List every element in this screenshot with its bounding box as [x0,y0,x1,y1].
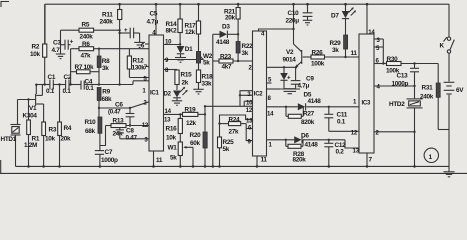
IC1 pin 8 [164,67,178,74]
capacitor C8 0.47 [116,128,149,142]
svg-text:1: 1 [353,99,357,106]
svg-text:D7: D7 [331,13,339,20]
svg-text:7: 7 [144,64,148,71]
left edge scan artifact [0,160,2,173]
IC1 pin 9 wire to W2 wiper [164,56,204,65]
svg-text:3: 3 [144,137,148,144]
resistor R22 3k [236,42,253,63]
svg-text:7: 7 [369,157,373,164]
wire top supply rail [45,3,449,5]
svg-text:1: 1 [269,142,273,149]
wire IC2 pin8 row to IC3 pin1 [267,106,360,108]
svg-text:12: 12 [246,107,253,114]
wire R6 node to IC1 [98,48,149,50]
capacitor C7 1000p [95,149,118,168]
svg-text:0.1: 0.1 [63,88,72,95]
svg-text:4: 4 [377,84,381,91]
svg-text:240k: 240k [420,94,434,101]
wire R5/C3 left vertical to ground [60,30,62,53]
capacitor C13 1000p [392,64,420,99]
diode D1 to ground [175,46,193,62]
svg-text:240k: 240k [80,34,94,41]
svg-text:R8: R8 [102,58,110,65]
wire ground bus [18,165,450,167]
svg-text:HTD1: HTD1 [1,136,17,143]
svg-text:0.1: 0.1 [46,88,55,95]
op-amp IC3 box [359,34,374,153]
svg-text:R7 10k: R7 10k [75,64,95,71]
capacitor C9 4.7u [287,67,314,89]
wire drain node row [35,83,50,94]
IC1 pin 5 [143,76,147,83]
svg-text:220μ: 220μ [286,18,300,25]
svg-text:D3: D3 [222,24,230,31]
junction dots on ground bus left [27,165,30,168]
resistor R19 12k [179,107,206,128]
wire gate node [18,98,36,100]
svg-text:12: 12 [142,122,149,129]
resistor R8 3k [97,49,110,85]
ground symbol under R18 [193,89,203,94]
svg-text:5k: 5k [170,155,177,162]
svg-text:K: K [440,43,445,50]
resistor R5 240k [61,22,120,41]
IC1 pin 12 [142,122,149,129]
svg-text:C8: C8 [126,128,134,135]
svg-text:60k: 60k [190,140,201,147]
svg-text:D1: D1 [185,46,193,53]
capacitor C2 0.1 [63,74,72,95]
resistor R13 24k [106,118,150,138]
svg-text:5k: 5k [203,60,210,67]
battery GB 6V [444,53,465,166]
svg-text:0.47: 0.47 [126,135,138,142]
svg-text:820k: 820k [293,157,307,164]
svg-text:10k: 10k [45,136,56,143]
svg-text:1000p: 1000p [101,157,118,164]
svg-text:C6: C6 [115,102,123,109]
svg-text:IC3: IC3 [362,100,371,107]
svg-text:14: 14 [368,29,375,36]
svg-text:+: + [287,75,291,82]
IC1 pin 7 [144,64,149,71]
svg-text:3: 3 [377,37,381,44]
svg-text:11: 11 [351,50,358,57]
svg-text:9014: 9014 [283,57,297,64]
diode D4 to ground [280,67,288,88]
svg-text:C3: C3 [53,40,61,47]
resistor R31 240k [420,64,449,130]
svg-text:5k: 5k [223,146,230,153]
top-left scan artifact [1,2,9,8]
svg-text:C9: C9 [306,76,314,83]
bottom border line [0,172,467,174]
resistor R18 33k [196,70,213,89]
switch K [440,4,455,53]
svg-text:4148: 4148 [305,142,319,149]
IC3 pin 2 wire [374,130,416,137]
capacitor C12 0.2 [324,140,346,168]
ground symbol under D4/C9 [267,89,301,94]
svg-text:R30: R30 [387,56,399,63]
svg-text:W1: W1 [168,145,178,152]
resistor R2 10k [30,4,47,84]
svg-text:R5: R5 [82,22,90,29]
svg-text:11: 11 [261,157,268,164]
svg-text:R11: R11 [102,12,113,19]
wire pin13 routing to R24/R25 [218,115,252,137]
svg-text:0.2: 0.2 [336,149,345,156]
svg-text:R29: R29 [330,40,342,47]
svg-text:R31: R31 [422,85,434,92]
svg-text:4.7μ: 4.7μ [147,19,159,26]
svg-text:20k: 20k [225,15,236,22]
svg-text:100k: 100k [311,61,325,68]
IC1 pin 11 bottom [152,151,163,168]
LED D2 to ground [164,87,188,106]
svg-text:47k: 47k [81,53,92,60]
svg-text:27k: 27k [229,129,240,136]
svg-text:820k: 820k [301,119,315,126]
svg-text:20k: 20k [61,136,72,143]
svg-text:10: 10 [246,100,253,107]
svg-text:R25: R25 [223,139,235,146]
wire left vertical from rail to R2 [44,4,46,44]
resistor R4 20k [58,85,72,167]
transistor V2 9014 [283,44,312,68]
svg-text:4k7: 4k7 [222,64,233,71]
wire C4 to R8/R9 node then to IC1 pin1 [84,81,149,86]
resistor R1 1.2M [24,100,40,167]
capacitor C3 4.7 electrolytic [52,39,74,54]
IC3 pin 4 wire [374,84,416,91]
resistor R25 5k [218,137,235,168]
svg-text:68k: 68k [85,128,96,135]
transistor V1 K304 FET [23,85,44,123]
wire R20 node to IC2 pin10/12 [205,101,253,106]
svg-text:2k: 2k [182,80,189,87]
resistor R20 60k [190,105,208,168]
svg-text:D2: D2 [164,91,172,98]
svg-text:13: 13 [246,118,253,125]
wire emitter node row [267,66,298,68]
svg-text:C13: C13 [397,73,409,80]
svg-text:R4: R4 [64,125,72,132]
svg-text:5: 5 [143,76,147,83]
resistor R15 2k [175,70,192,90]
resistor R24 27k [220,116,247,135]
svg-text:R18: R18 [202,74,214,81]
svg-text:R23: R23 [220,54,232,61]
svg-text:4148: 4148 [216,39,230,46]
svg-text:K304: K304 [23,113,38,120]
IC1 pin 4 top [152,3,157,37]
wire R13 left leg down to C7 node [100,126,106,146]
svg-text:10k: 10k [166,135,177,142]
svg-text:2: 2 [376,130,380,137]
wire D3 anode vertical to bus [212,34,215,167]
resistor R17 12k [185,3,201,52]
wire C2 to C4 node with R6/R7 vertical [69,49,81,86]
wire C11 bottom to IC3 pin12 [329,130,359,132]
svg-text:R10: R10 [85,119,97,126]
resistor R26 100k [311,50,359,68]
svg-text:68k: 68k [102,96,113,103]
diode D5 4148 [298,92,321,111]
svg-text:R12: R12 [133,58,145,65]
svg-text:4148: 4148 [308,98,322,105]
svg-text:C11: C11 [337,112,348,119]
resistor R29 3k [330,35,348,58]
wire IC2 pin1 row to IC3 pin13 [267,139,360,148]
capacitor C10 220u [286,3,313,25]
svg-text:R6: R6 [82,41,90,48]
svg-text:C10: C10 [288,10,300,17]
svg-text:3k: 3k [242,50,249,57]
svg-text:1: 1 [429,154,433,161]
svg-text:33k: 33k [202,81,213,88]
svg-text:14: 14 [165,108,172,115]
svg-text:0.1: 0.1 [86,85,95,92]
capacitor C6 0.47 [108,102,134,127]
svg-text:R20: R20 [190,132,202,139]
LED D7 [331,3,356,35]
wire C1-C2 junction with R4 tap [53,83,65,85]
diode D3 4148 [213,24,240,47]
IC1 pin 10 [164,39,181,46]
svg-text:IC1: IC1 [150,90,159,97]
op-amp IC2 box [253,31,267,156]
svg-text:6V: 6V [456,87,464,94]
IC3 pins 3 and 5 tie box [374,37,384,65]
IC2 pin3 box [239,91,253,107]
svg-text:R27: R27 [303,111,315,118]
svg-text:R19: R19 [185,107,197,114]
resistor R10 68k [85,117,102,150]
IC1 pin 3 [144,137,148,144]
svg-text:9: 9 [248,139,252,146]
svg-text:8K2: 8K2 [166,28,178,35]
svg-text:240k: 240k [100,19,114,26]
svg-text:5: 5 [376,45,380,52]
svg-text:V1: V1 [29,105,37,112]
svg-text:1: 1 [142,88,146,95]
IC2 pin 5 stub [267,77,273,84]
IC1 pin 13 [164,117,171,124]
svg-text:V2: V2 [286,49,294,56]
capacitor C1 0.1 [46,74,56,95]
wire V2 collector vertical [292,3,295,44]
svg-text:R16: R16 [166,126,178,133]
svg-text:R26: R26 [312,50,324,57]
svg-text:11: 11 [156,157,163,164]
svg-text:2: 2 [249,65,253,72]
circled figure number 1 [424,148,438,162]
svg-text:D6: D6 [301,133,309,140]
ground symbol under C5 [134,42,145,47]
svg-text:10k: 10k [30,51,41,58]
transducer HTD1 [1,100,21,167]
svg-text:C1: C1 [48,74,56,81]
IC3 pin 14 top [366,3,376,36]
resistor R11 240k [100,3,122,85]
svg-text:8: 8 [268,95,272,102]
IC1 pin 6 [141,43,149,50]
svg-text:R2: R2 [32,44,40,51]
resistor R21 20k [224,3,240,42]
potentiometer W2 5k [196,52,212,71]
svg-text:R3: R3 [49,127,57,134]
svg-text:24k: 24k [113,131,124,138]
svg-text:3k: 3k [332,47,339,54]
svg-text:1.2M: 1.2M [24,142,37,149]
svg-text:IC2: IC2 [254,91,263,98]
resistor R7 10k [71,64,99,74]
wire R9 bottom node to C6 [98,102,149,109]
svg-text:HTD2: HTD2 [389,101,405,108]
IC3 pin 6 with R30 100k [374,56,438,75]
IC2 pin 11 bottom [256,156,268,168]
resistor R23 4k7 [213,54,253,71]
resistor R12 130k [127,49,149,78]
IC1 pin 14 wire with R19 [164,108,183,115]
svg-text:R9: R9 [102,89,110,96]
svg-text:(0.47: (0.47 [108,109,121,116]
svg-text:R22: R22 [242,43,254,50]
resistor R27 820k [286,107,315,126]
IC3 pin 7 bottom [366,153,373,168]
svg-text:13: 13 [164,117,171,124]
svg-text:12: 12 [351,130,358,137]
svg-text:9: 9 [165,57,169,64]
svg-text:3k: 3k [102,65,109,72]
ground symbol at battery bottom [443,166,454,176]
svg-text:10: 10 [165,39,172,46]
IC2 pin 4 top wire [259,29,294,38]
capacitor C11 0.1 [324,107,347,132]
op-amp IC1 box [149,35,164,151]
resistor R28 820k [286,140,306,164]
svg-text:C5: C5 [150,11,158,18]
svg-text:R24: R24 [229,116,241,123]
diode D6 4148 [294,133,318,149]
wire pins 6 and 9 tie [246,124,252,141]
IC1 pin 1 [142,88,146,95]
ground symbol under C3 [56,54,65,59]
svg-text:0.1: 0.1 [337,119,346,126]
svg-text:+: + [70,39,74,46]
svg-text:3: 3 [247,91,251,98]
svg-text:12k: 12k [186,120,197,127]
IC1 pin 2 [143,100,147,107]
resistor R16 10k [166,114,183,142]
potentiometer W1 5k [168,142,195,168]
svg-text:8: 8 [165,67,169,74]
svg-text:C7: C7 [105,149,113,156]
svg-text:12k: 12k [185,29,196,36]
resistor R14 8K2 [166,3,183,46]
svg-text:R13: R13 [113,118,125,125]
resistor R9 68k [97,88,112,118]
capacitor C5 4.7u electrolytic [118,11,158,43]
svg-text:4.7: 4.7 [52,47,61,54]
resistor R6 47k [71,41,99,60]
svg-text:14: 14 [267,111,274,118]
svg-text:R15: R15 [181,72,193,79]
resistor R3 10k [42,122,57,166]
capacitor C4 0.1 [81,79,94,93]
transducer HTD2 [389,99,423,168]
